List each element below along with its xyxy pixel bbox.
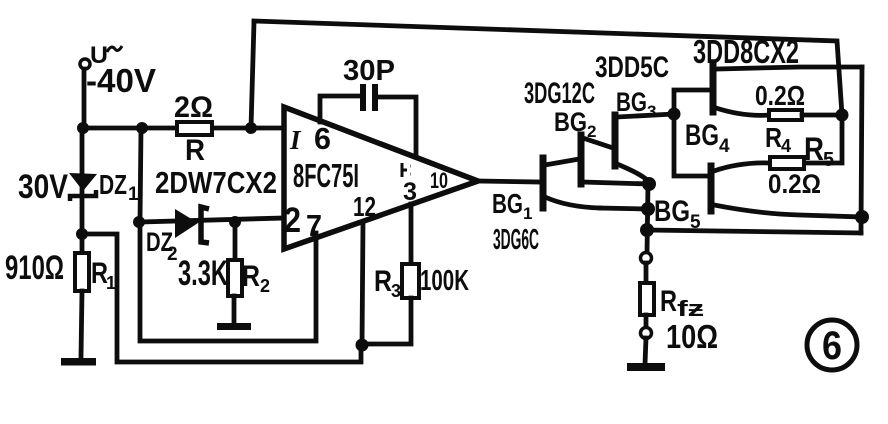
- svg-text:R: R: [374, 265, 392, 298]
- node junction BG1 emitter: [641, 202, 655, 216]
- wire terminal to ground: [645, 338, 646, 364]
- node junction BG5 collector: [855, 210, 869, 224]
- ground under Rf: [627, 363, 665, 371]
- svg-text:2DW7CX2: 2DW7CX2: [155, 165, 277, 200]
- svg-text:1: 1: [106, 273, 116, 293]
- svg-text:0.2Ω: 0.2Ω: [768, 169, 821, 199]
- node junction pin12/R3: [356, 339, 369, 352]
- ground under R2: [217, 323, 251, 330]
- svg-text:BG: BG: [616, 87, 647, 117]
- svg-text:2: 2: [284, 201, 301, 240]
- svg-text:3DG12C: 3DG12C: [524, 77, 595, 110]
- wire DZ2 branch vertical: [140, 128, 141, 222]
- svg-text:4: 4: [781, 136, 791, 156]
- resistor R5 0.2ohm: [768, 131, 834, 199]
- wire terminal to Rf: [644, 263, 649, 285]
- label -40V: [86, 62, 156, 99]
- svg-text:3DD5C: 3DD5C: [595, 51, 669, 84]
- wire op-amp output to BG1: [478, 181, 540, 182]
- resistor R4 0.2ohm: [755, 80, 805, 156]
- node junction DZ2 anode: [133, 216, 145, 228]
- wire main horizontal to op-amp: [83, 126, 284, 131]
- svg-text:BG: BG: [492, 188, 523, 219]
- svg-text:R: R: [660, 285, 677, 318]
- wire R2 to ground: [232, 296, 237, 324]
- transistor BG1 3DG6C: [492, 158, 600, 256]
- node junction below DZ1: [76, 228, 88, 240]
- transistor BG4 3DD8C: [685, 33, 862, 157]
- svg-text:I: I: [289, 125, 302, 155]
- node junction BG3 collector to bases: [668, 108, 681, 121]
- svg-text:2Ω: 2Ω: [174, 91, 213, 124]
- node junction DZ2 branch: [136, 122, 148, 134]
- output terminal lower: [641, 328, 652, 339]
- svg-text:1: 1: [523, 204, 532, 223]
- output terminal upper: [641, 253, 652, 264]
- resistor R2 3.3K: [178, 222, 270, 296]
- wire outer bottom loop from DZ1 node to R3 node: [82, 234, 361, 362]
- wire pin3 down to R3: [409, 204, 414, 266]
- resistor Rf 10ohm: [640, 283, 718, 355]
- svg-text:10Ω: 10Ω: [666, 318, 718, 355]
- wire feedback top rail: [254, 21, 842, 163]
- ground under R1: [61, 358, 96, 366]
- capacitor C 30P feedback: [320, 55, 416, 157]
- svg-text:BG: BG: [685, 119, 719, 152]
- svg-text:DZ: DZ: [99, 169, 127, 200]
- svg-text:100K: 100K: [420, 265, 469, 297]
- wire R3 bottom to node: [361, 298, 411, 344]
- resistor R 2ohm: [174, 91, 213, 167]
- wire DZ1 vertical: [80, 128, 85, 256]
- svg-text:R: R: [804, 131, 824, 167]
- svg-text:6: 6: [314, 121, 331, 156]
- wire BG1 emitter to node: [600, 208, 648, 209]
- svg-text:8FC75I: 8FC75I: [293, 157, 359, 194]
- node junction left: [77, 122, 89, 134]
- wire Rf to terminal: [644, 315, 649, 328]
- transistor BG3 3DD5C: [595, 51, 674, 184]
- svg-text:R: R: [242, 260, 260, 293]
- svg-text:5: 5: [690, 212, 701, 233]
- svg-text:BG: BG: [554, 107, 587, 137]
- svg-text:7: 7: [306, 208, 322, 243]
- node junction BG2/BG3 emitters: [642, 177, 656, 191]
- wire inner bottom loop DZ2 node to pin7: [140, 222, 316, 341]
- transistor BG2 3DG12C: [524, 77, 649, 184]
- svg-text:2: 2: [587, 122, 596, 141]
- node junction R4/feedback: [836, 109, 849, 122]
- svg-text:5: 5: [823, 149, 834, 171]
- zener diode DZ1 30V: [18, 168, 139, 206]
- wire DZ2 horizontal to pin2: [139, 218, 284, 222]
- svg-text:-40V: -40V: [86, 62, 156, 99]
- svg-text:R: R: [185, 134, 205, 167]
- svg-text:10: 10: [430, 168, 448, 193]
- wire collectors outer vertical: [861, 67, 862, 233]
- figure number 6: [807, 320, 857, 370]
- svg-text:0.2Ω: 0.2Ω: [755, 80, 805, 111]
- transistor BG5 3DD8C: [654, 163, 862, 233]
- svg-text:3DD8CX2: 3DD8CX2: [693, 33, 799, 70]
- wire base bus BG4/BG5: [674, 90, 710, 176]
- wire R4 to feedback node: [802, 113, 842, 118]
- svg-text:2: 2: [167, 244, 178, 265]
- wire R1 to ground: [81, 291, 82, 357]
- svg-text:3: 3: [647, 102, 656, 121]
- node junction DZ2 cathode / R2: [229, 216, 241, 228]
- svg-text:4: 4: [719, 136, 730, 157]
- wire pin12 down: [362, 222, 363, 345]
- svg-text:6: 6: [822, 324, 842, 368]
- wire feedback rail vertical left: [251, 22, 254, 128]
- zener diode DZ2 2DW7CX2: [146, 165, 277, 265]
- node vertical emitter bus: [647, 184, 648, 253]
- wire bottom rail to right: [647, 230, 861, 233]
- svg-text:30P: 30P: [343, 55, 395, 87]
- op-amp U 8FC75I: [284, 107, 478, 249]
- svg-text:30V: 30V: [18, 168, 68, 206]
- node junction feedback: [245, 122, 257, 134]
- svg-text:3DG6C: 3DG6C: [493, 224, 539, 256]
- wire input vertical: [82, 69, 87, 128]
- resistor R3 100K: [374, 264, 469, 301]
- svg-text:910Ω: 910Ω: [5, 249, 64, 287]
- svg-text:1: 1: [128, 184, 139, 205]
- svg-text:BG: BG: [654, 195, 690, 228]
- svg-text:12: 12: [353, 191, 376, 222]
- node junction bottom rail: [640, 223, 654, 237]
- svg-text:R: R: [765, 122, 782, 153]
- input terminal Uin: [80, 42, 122, 69]
- svg-text:3.3K: 3.3K: [178, 254, 228, 293]
- svg-text:2: 2: [260, 276, 270, 296]
- svg-text:3: 3: [391, 281, 401, 301]
- resistor R1 910ohm: [5, 249, 116, 293]
